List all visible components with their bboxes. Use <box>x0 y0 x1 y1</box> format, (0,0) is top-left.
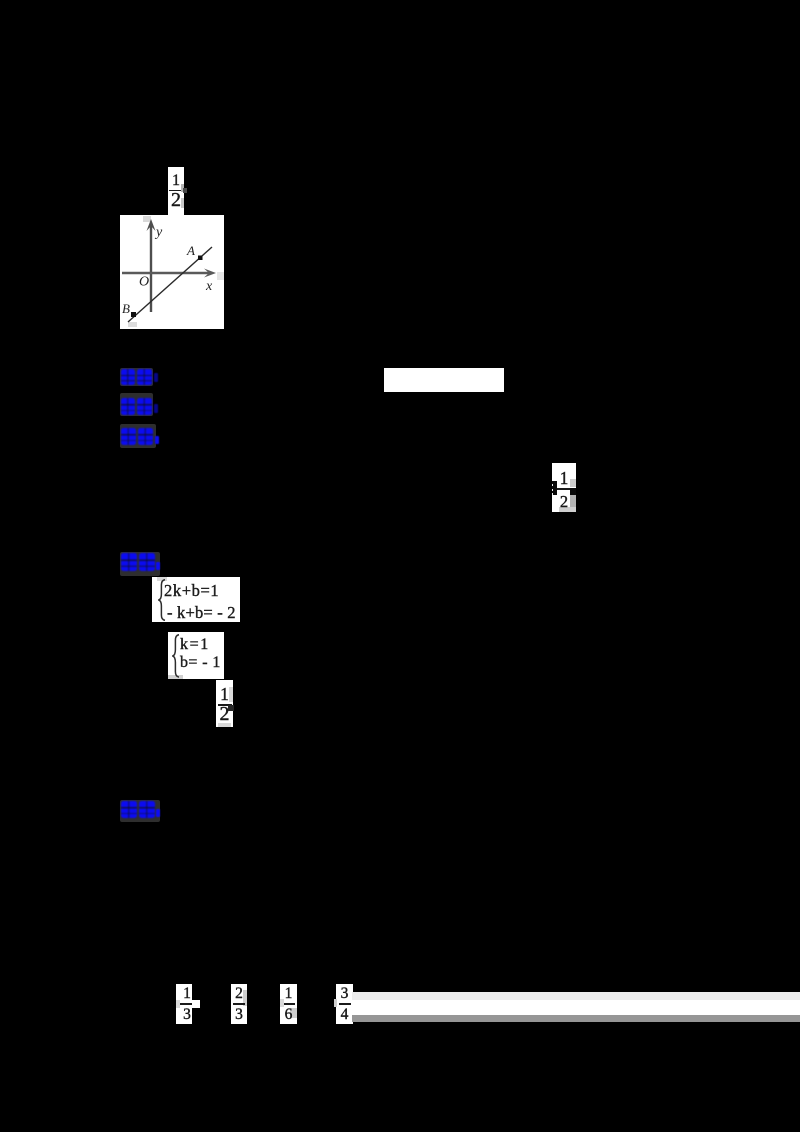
svg-text:B: B <box>122 301 130 316</box>
F2 artifacts <box>552 481 557 495</box>
F1 artifacts <box>181 184 184 192</box>
line AB <box>128 247 212 322</box>
label 点评： <box>120 800 160 822</box>
fraction F3 1/2 <box>216 680 233 727</box>
equation system box1 {2k+b=1 ; -k+b=-2 <box>152 577 240 622</box>
grey artifacts <box>143 216 151 222</box>
y-axis <box>150 225 152 312</box>
fraction F2 1/2 (right, x=552) <box>552 463 576 512</box>
label 解答： <box>120 552 160 576</box>
label 分析： <box>120 424 156 448</box>
svg-text:O: O <box>139 275 149 290</box>
point A <box>198 256 203 261</box>
x-axis <box>122 272 212 275</box>
white notch right of 1/3 <box>192 1000 200 1008</box>
bottom fraction 1/3 <box>176 984 192 1024</box>
point B <box>131 312 136 317</box>
bottom fraction 2/3 <box>231 984 247 1024</box>
bottom fraction 1/6 <box>280 984 297 1024</box>
label 专题： <box>120 393 153 416</box>
label 考点： <box>120 368 153 386</box>
svg-text:A: A <box>186 243 195 258</box>
fraction F1 1/2 (top, x=168) <box>168 167 184 215</box>
F3 artifacts <box>228 705 234 711</box>
graph image <box>120 215 224 329</box>
bottom fraction 3/4 <box>336 984 353 1024</box>
svg-text:y: y <box>154 225 163 240</box>
svg-text:x: x <box>205 279 213 294</box>
answer white rect <box>384 368 504 392</box>
equation system box2 {k=1 ; b=-1 <box>168 632 224 679</box>
horizontal bands bottom right <box>352 992 800 999</box>
